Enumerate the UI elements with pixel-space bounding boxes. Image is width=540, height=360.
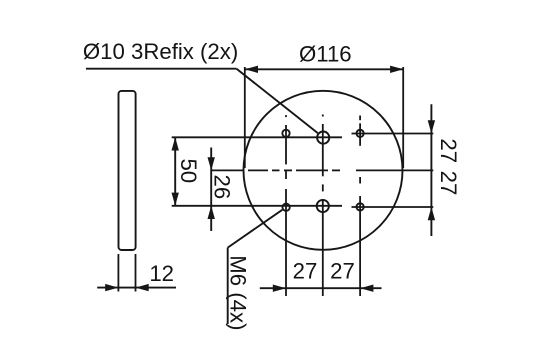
- dim right 27/27 line: [430, 104, 432, 236]
- dim 50 line: [174, 137, 176, 206]
- vertical centerline: [322, 115, 324, 297]
- plate front view circle: [244, 91, 403, 250]
- dim 26 line: [210, 148, 212, 232]
- svg-text:26: 26: [210, 175, 235, 200]
- hole refix top: [317, 132, 329, 144]
- dim bottom right arrow: [360, 285, 373, 292]
- top-right hole crosshair horizontal / right dim extension top: [352, 133, 434, 135]
- svg-text:27: 27: [293, 258, 318, 283]
- dim 12 line: [97, 287, 176, 289]
- dim Ø116 left arrow: [245, 66, 258, 73]
- right hole column centerline: [359, 116, 361, 297]
- 50 dim extension bottom / big hole crosshair: [172, 205, 342, 207]
- svg-text:M6 (4x): M6 (4x): [226, 255, 251, 330]
- svg-text:27: 27: [330, 258, 355, 283]
- hole M6 top-right: [356, 130, 363, 137]
- hole refix bottom: [317, 200, 329, 212]
- dim Ø116 right arrow: [390, 66, 403, 73]
- dim 12 right arrow: [136, 284, 149, 291]
- bottom-right hole crosshair horizontal / right dim extension bottom: [352, 206, 434, 208]
- horizontal centerline: [211, 169, 433, 171]
- dim Ø116 right extension: [402, 67, 404, 168]
- label leader Ø10 underline: [86, 68, 237, 70]
- label leader M6 vertical: [227, 248, 229, 324]
- dim 50 bottom arrow: [172, 193, 179, 206]
- dim 26 top arrow: [208, 157, 215, 170]
- dim right top arrow: [428, 120, 435, 133]
- dim Ø116 left extension: [244, 67, 246, 168]
- dim right bottom arrow: [428, 207, 435, 220]
- dim 26 bottom arrow: [208, 206, 215, 219]
- 50 dim extension top / big hole crosshair: [172, 136, 342, 138]
- left hole column centerline: [285, 115, 287, 296]
- dim Ø116 line: [245, 68, 403, 70]
- hole M6 bottom-left: [282, 204, 289, 211]
- svg-text:50: 50: [176, 158, 201, 183]
- dim 50 top arrow: [172, 137, 179, 150]
- hole M6 top-left: [282, 130, 289, 137]
- svg-text:27: 27: [436, 171, 461, 196]
- dim bottom left arrow: [273, 285, 286, 292]
- svg-text:27: 27: [436, 138, 461, 163]
- plate side view: [119, 91, 136, 250]
- dim 12 right extension: [135, 254, 137, 292]
- label leader M6 diagonal: [228, 210, 283, 248]
- dim 12 left extension: [117, 254, 119, 292]
- svg-text:Ø10 3Refix (2x): Ø10 3Refix (2x): [83, 39, 238, 64]
- dim 12 left arrow: [105, 284, 118, 291]
- svg-text:12: 12: [149, 261, 174, 286]
- label leader Ø10 diagonal: [237, 69, 318, 133]
- dim bottom 27/27 line: [260, 287, 382, 289]
- svg-text:Ø116: Ø116: [299, 42, 352, 67]
- hole M6 bottom-right: [356, 203, 363, 210]
